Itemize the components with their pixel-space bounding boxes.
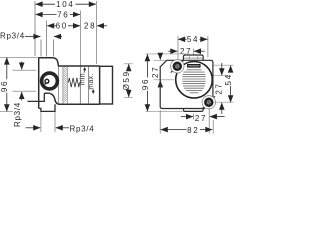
max. wall plane (box left edge) — [99, 66, 101, 104]
screw boss bottom-right — [202, 96, 215, 109]
dimension 96 right view — [146, 54, 148, 77]
top lug — [183, 55, 203, 60]
svg-text:min.: min. — [80, 71, 87, 85]
port inner flow symbol — [45, 79, 49, 83]
bottom extension lines — [193, 114, 195, 120]
screw bottom-right — [205, 99, 212, 106]
extension line 60-left (x=46.6) — [46, 21, 48, 57]
svg-text:82: 82 — [187, 126, 199, 135]
dimension 27 left (outside arrows) — [159, 53, 161, 60]
hatched band (wall section) — [63, 65, 67, 104]
top dim extension center x=193.4 — [192, 49, 194, 56]
mounting plate — [160, 60, 213, 108]
max arrow tiny — [92, 91, 95, 94]
chamfer diagonal bottom-right — [203, 96, 215, 108]
dimension 27 right — [221, 63, 223, 75]
inner line x=80.3 — [79, 67, 81, 105]
svg-text:54: 54 — [224, 73, 233, 85]
dimension 54 top — [178, 38, 186, 40]
screw top-left — [174, 63, 181, 70]
port circle (side port) — [42, 73, 58, 89]
dimension 96 vertical line — [6, 58, 8, 80]
big circle Ø59 — [176, 62, 213, 99]
dimension 28 outside arrow — [97, 25, 107, 27]
svg-text:27: 27 — [195, 114, 207, 123]
dimension 54 right — [230, 66, 232, 73]
svg-text:27: 27 — [151, 66, 160, 78]
leader arrow to top port left — [25, 36, 40, 38]
left port dim: extension y=70.2 — [13, 69, 37, 71]
dimension 96 left: extension top — [0, 56, 39, 58]
svg-text:Rp3/4: Rp3/4 — [13, 102, 22, 127]
screw boss top-left — [171, 60, 184, 73]
body bottom-left flange — [28, 93, 51, 101]
dimension 76 — [36, 14, 57, 16]
body left face — [38, 58, 40, 109]
svg-text:104: 104 — [56, 0, 74, 9]
body bottom step — [50, 94, 99, 105]
svg-text:54: 54 — [187, 35, 199, 44]
svg-text:60: 60 — [56, 22, 68, 31]
internal joint line — [58, 66, 60, 104]
svg-text:Ø59: Ø59 — [122, 70, 131, 90]
svg-text:27: 27 — [214, 82, 223, 94]
spring symbol — [68, 78, 79, 87]
label logo box — [187, 64, 201, 68]
dimension 27 bottom — [181, 116, 193, 118]
dimension 96 left: extension bottom — [0, 111, 13, 113]
top dim extension x=178 — [177, 36, 179, 60]
dimension 82 bottom — [161, 129, 187, 131]
svg-text:76: 76 — [57, 10, 69, 19]
extension line 104/28 right (x=96.4) — [95, 1, 97, 64]
svg-text:28: 28 — [84, 22, 96, 31]
chamfer diagonal top-left — [171, 60, 184, 72]
bottom lug — [183, 109, 203, 112]
dimension Ø59 — [124, 63, 133, 65]
left extension lines — [146, 53, 187, 55]
dimension 104 — [36, 3, 55, 5]
min arrow tiny — [83, 67, 86, 70]
svg-text:max.: max. — [88, 73, 95, 89]
dimension 27 top — [168, 50, 177, 52]
left port dim: extension y=91.2 — [13, 90, 37, 92]
left port dim: lower outside arrow — [21, 92, 23, 101]
svg-text:96: 96 — [141, 78, 150, 90]
outside arrow top port right — [54, 36, 62, 38]
left port dim: upper outside arrow — [21, 62, 23, 70]
min. wall plane — [88, 67, 90, 105]
dimension 60 — [47, 25, 56, 27]
extension line 76/60-right (x=80.6) — [80, 11, 82, 67]
svg-text:Rp3/4: Rp3/4 — [0, 31, 25, 40]
body bottom stub — [39, 104, 55, 111]
top dim extension x=207.7 — [207, 36, 209, 58]
front protruding box — [100, 66, 113, 104]
top lug shoulder line — [183, 57, 203, 59]
body rear section outline — [39, 58, 100, 66]
extension line top port left (x=41) — [40, 40, 42, 57]
extension line top port right (x=53.4) — [52, 40, 54, 57]
extension line left (x=35) — [34, 1, 36, 56]
bottom Rp3/4 arrows — [26, 127, 41, 129]
bottom port extension lines — [40, 112, 42, 132]
svg-text:Rp3/4: Rp3/4 — [70, 124, 95, 133]
label fine print lines — [182, 70, 205, 93]
svg-text:96: 96 — [0, 80, 9, 92]
right extension lines — [214, 64, 234, 66]
